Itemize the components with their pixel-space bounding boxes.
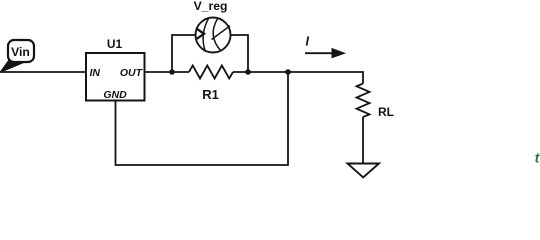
svg-text:R1: R1 — [202, 87, 219, 102]
svg-text:RL: RL — [378, 105, 394, 119]
current arrow I — [305, 52, 334, 54]
voltmeter pointer > — [197, 29, 204, 39]
svg-text:GND: GND — [103, 89, 127, 101]
wire input from Vin to U1 IN — [0, 71, 86, 73]
svg-text:V_reg: V_reg — [194, 0, 228, 13]
node B junction — [245, 69, 251, 75]
svg-text:U1: U1 — [107, 37, 123, 51]
svg-text:Vin: Vin — [11, 45, 30, 59]
wire node C to RL — [288, 72, 363, 84]
wire R1 to node B — [233, 71, 288, 73]
node C junction — [285, 69, 291, 75]
resistor RL — [357, 84, 370, 117]
voltmeter V_reg body — [196, 18, 231, 53]
svg-text:I: I — [306, 35, 310, 49]
voltmeter dial arc 1 — [203, 19, 208, 53]
resistor R1 — [189, 66, 233, 79]
svg-text:OUT: OUT — [120, 67, 144, 79]
wire right riser from voltmeter — [231, 35, 249, 72]
regulator U1 body — [86, 53, 145, 101]
callout bubble Vin — [8, 40, 34, 62]
wire U1 OUT to node A — [145, 71, 189, 73]
wire bottom return GND loop — [116, 72, 289, 165]
node A junction — [169, 69, 175, 75]
wire left riser to voltmeter — [172, 35, 196, 72]
voltmeter needle — [212, 26, 231, 40]
wire RL to ground — [362, 117, 364, 164]
callout tail (Vin tag) — [0, 59, 26, 73]
ground — [348, 164, 380, 178]
svg-text:IN: IN — [90, 67, 101, 79]
voltmeter dial arc 2 — [213, 18, 221, 51]
svg-text:t: t — [535, 150, 540, 165]
